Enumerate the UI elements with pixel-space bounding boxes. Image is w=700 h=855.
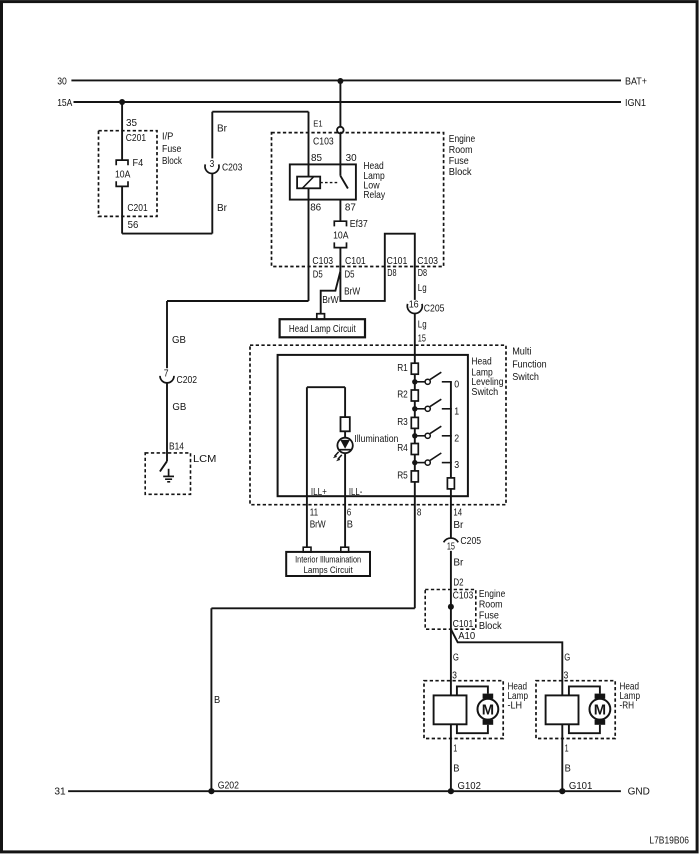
svg-text:C205: C205 xyxy=(460,535,481,547)
svg-text:87: 87 xyxy=(345,201,356,213)
svg-text:15A: 15A xyxy=(57,97,72,109)
svg-text:C103: C103 xyxy=(312,255,333,267)
svg-text:Br: Br xyxy=(217,123,227,135)
svg-text:GND: GND xyxy=(628,786,651,798)
svg-text:M: M xyxy=(594,702,606,718)
svg-text:LCM: LCM xyxy=(193,453,216,465)
svg-text:E1: E1 xyxy=(313,118,322,128)
svg-text:BrW: BrW xyxy=(322,294,339,306)
svg-text:7: 7 xyxy=(164,368,169,380)
svg-text:L7B19B06: L7B19B06 xyxy=(649,834,689,846)
svg-text:I/P: I/P xyxy=(162,131,173,143)
svg-text:1: 1 xyxy=(453,743,457,755)
svg-text:14: 14 xyxy=(453,506,462,518)
svg-text:C101: C101 xyxy=(345,255,366,267)
svg-text:R1: R1 xyxy=(397,362,408,374)
svg-text:ILL-: ILL- xyxy=(349,486,363,498)
svg-text:11: 11 xyxy=(310,506,319,518)
svg-text:1: 1 xyxy=(454,405,459,417)
svg-text:G101: G101 xyxy=(569,780,593,792)
svg-text:M: M xyxy=(482,702,494,718)
svg-text:C205: C205 xyxy=(424,302,445,314)
svg-text:C101: C101 xyxy=(453,618,474,630)
svg-text:Block: Block xyxy=(479,620,502,632)
svg-text:Br: Br xyxy=(217,202,227,214)
svg-text:C103: C103 xyxy=(453,590,474,602)
svg-text:Function: Function xyxy=(512,358,547,370)
svg-text:B: B xyxy=(453,762,459,774)
svg-text:G: G xyxy=(564,651,570,663)
svg-text:BrW: BrW xyxy=(310,519,326,531)
svg-text:Lg: Lg xyxy=(418,282,427,294)
svg-text:C201: C201 xyxy=(127,202,147,214)
svg-text:C103: C103 xyxy=(313,135,334,147)
svg-text:Relay: Relay xyxy=(363,189,385,201)
svg-text:Switch: Switch xyxy=(512,371,539,383)
svg-text:Br: Br xyxy=(453,557,463,569)
svg-text:1: 1 xyxy=(565,743,569,755)
svg-text:GB: GB xyxy=(172,401,186,413)
svg-text:G: G xyxy=(453,651,459,663)
svg-text:BrW: BrW xyxy=(344,286,360,298)
svg-text:Engine: Engine xyxy=(449,133,476,145)
svg-text:G202: G202 xyxy=(218,780,239,792)
svg-text:86: 86 xyxy=(310,201,321,213)
svg-text:30: 30 xyxy=(57,76,67,88)
svg-text:F4: F4 xyxy=(133,157,144,169)
svg-text:D5: D5 xyxy=(345,269,355,281)
svg-text:IGN1: IGN1 xyxy=(625,97,646,109)
svg-text:Illumination: Illumination xyxy=(354,433,398,445)
svg-text:2: 2 xyxy=(454,432,459,444)
svg-text:R5: R5 xyxy=(397,470,408,482)
svg-text:BAT+: BAT+ xyxy=(625,76,647,88)
svg-text:85: 85 xyxy=(311,152,322,164)
svg-text:10A: 10A xyxy=(115,168,130,180)
svg-text:3: 3 xyxy=(452,669,457,681)
svg-text:Ef37: Ef37 xyxy=(350,218,368,230)
svg-text:3: 3 xyxy=(454,459,459,471)
svg-text:15: 15 xyxy=(418,332,426,344)
svg-text:A10: A10 xyxy=(458,630,475,642)
svg-text:31: 31 xyxy=(54,786,65,798)
svg-text:D2: D2 xyxy=(453,576,463,588)
svg-text:B14: B14 xyxy=(169,440,184,452)
svg-text:15: 15 xyxy=(447,540,455,552)
svg-text:3: 3 xyxy=(210,158,215,170)
svg-text:GB: GB xyxy=(172,334,186,346)
svg-text:35: 35 xyxy=(126,117,137,129)
svg-text:C103: C103 xyxy=(417,255,438,267)
svg-text:Block: Block xyxy=(162,155,182,167)
svg-text:R3: R3 xyxy=(397,416,408,428)
svg-text:C202: C202 xyxy=(177,374,198,386)
svg-text:0: 0 xyxy=(454,378,459,390)
svg-text:B: B xyxy=(347,519,353,531)
svg-text:30: 30 xyxy=(346,152,357,164)
svg-text:56: 56 xyxy=(128,219,139,231)
svg-text:Fuse: Fuse xyxy=(162,143,182,155)
svg-text:-LH: -LH xyxy=(508,700,523,712)
svg-text:Head Lamp Circuit: Head Lamp Circuit xyxy=(289,323,356,335)
svg-text:G102: G102 xyxy=(458,780,482,792)
svg-text:ILL+: ILL+ xyxy=(311,486,327,498)
svg-text:8: 8 xyxy=(417,506,422,518)
svg-text:R4: R4 xyxy=(397,442,408,454)
svg-text:C101: C101 xyxy=(387,255,408,267)
svg-text:6: 6 xyxy=(347,506,352,518)
svg-text:D5: D5 xyxy=(313,269,323,281)
svg-text:3: 3 xyxy=(564,669,569,681)
svg-text:B: B xyxy=(565,762,571,774)
svg-text:Br: Br xyxy=(453,519,463,531)
svg-text:C201: C201 xyxy=(126,132,146,144)
svg-text:Fuse: Fuse xyxy=(449,155,469,167)
svg-text:C203: C203 xyxy=(222,161,243,173)
svg-text:10A: 10A xyxy=(333,229,348,241)
svg-text:B: B xyxy=(214,694,220,706)
svg-text:Lg: Lg xyxy=(418,319,427,331)
svg-text:16: 16 xyxy=(409,299,419,311)
svg-text:-RH: -RH xyxy=(620,700,635,712)
svg-text:R2: R2 xyxy=(397,389,408,401)
svg-text:Lamps Circuit: Lamps Circuit xyxy=(303,565,353,576)
svg-text:D8: D8 xyxy=(387,267,396,279)
svg-text:Block: Block xyxy=(449,166,472,178)
svg-text:Switch: Switch xyxy=(471,386,498,398)
svg-text:Multi: Multi xyxy=(512,346,531,358)
svg-text:D8: D8 xyxy=(418,267,427,279)
